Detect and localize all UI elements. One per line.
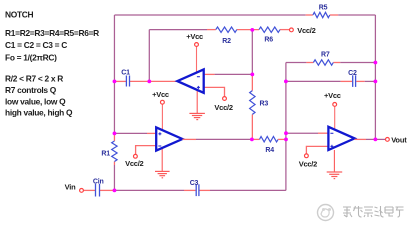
svg-text:R4: R4 [265,147,274,154]
svg-text:R1: R1 [101,150,110,157]
op-amp U1 [177,69,203,92]
junction C2 right [374,80,378,84]
wire op-amp U2 output y=139.4 [182,138,252,140]
wire C1 rail y=81 [114,80,177,82]
resistor R3 [250,91,269,115]
wire op-amp U1 non-inverting input to Vcc/2 [204,87,225,96]
terminal Vcc/2 U3 [299,154,317,168]
capacitor C1 [121,70,130,87]
svg-text:R2: R2 [222,38,231,45]
junction U3 inverting input [284,131,288,135]
wire op-amp U1 inverting input y=74.4 [204,73,253,75]
wire vertical rail x=285.9 [285,63,287,191]
junction C2 left [284,80,288,84]
svg-text:Vin: Vin [65,182,77,191]
ground U3 [327,150,343,179]
terminal Vcc/2 top right [290,26,316,35]
svg-text:NOTCH: NOTCH [5,10,34,20]
notes text block [5,10,99,118]
svg-text:+Vcc: +Vcc [186,32,203,41]
wire C2 rail y=81 [286,80,376,82]
wire op-amp U2 non-inverting input y=133.4 [114,132,156,134]
resistor R5 [313,5,330,18]
wire top rail y=15 [115,14,376,16]
svg-text:R6: R6 [264,37,273,44]
svg-text:Vcc/2: Vcc/2 [125,159,143,168]
power +Vcc U2 [152,90,169,130]
junction R4 right [284,138,288,142]
op-amp U2 [156,127,182,150]
wire bottom rail y=190.4 [84,189,286,191]
capacitor C2 [348,70,357,87]
svg-text:+Vcc: +Vcc [324,91,341,100]
watermark logo [318,205,334,221]
svg-text:low value, low Q: low value, low Q [5,96,66,106]
resistor R1 [101,141,117,162]
junction U2 non-inverting input [113,132,117,136]
wire vertical x=149.3 [148,30,150,82]
terminal Vcc/2 U2 [125,154,143,168]
svg-text:high value, high Q: high value, high Q [5,107,73,117]
svg-text:C3: C3 [190,180,199,187]
svg-text:R3: R3 [260,100,269,107]
junction C1 right [147,80,151,84]
svg-text:R7 controls Q: R7 controls Q [5,85,57,95]
terminal Vin [65,182,84,192]
wire op-amp U3 output to Vout [355,138,386,140]
wire op-amp U2 inverting input to Vcc/2 [136,146,157,155]
terminal Vout [386,136,408,145]
junction R2/R6 [250,28,254,32]
wire R2/R6 rail y=29.6 [149,29,289,31]
junction U1 inverting input [250,73,254,77]
resistor R6 [259,27,280,44]
svg-text:R5: R5 [319,5,328,12]
resistor R2 [216,27,237,45]
svg-text:+Vcc: +Vcc [152,90,169,99]
svg-text:Vcc/2: Vcc/2 [297,26,315,35]
wire right vertical rail x=375.4 [374,15,376,139]
wire op-amp U3 non-inverting input to Vcc/2 [306,146,328,154]
junction bottom Cin/R1 [113,189,117,193]
junction C1 left [113,80,117,84]
svg-text:R/2 < R7 < 2 x R: R/2 < R7 < 2 x R [5,74,63,84]
ground U1 [189,90,205,120]
op-amp U3 [328,127,354,150]
power +Vcc U3 [324,91,341,130]
wire op-amp U3 inverting input y=133.2 [286,132,328,134]
terminal Vcc/2 U1 [214,97,232,113]
power +Vcc U1 [186,32,203,73]
capacitor Cin [93,179,104,197]
watermark text [343,206,404,217]
svg-text:R7: R7 [321,51,330,58]
svg-text:Cin: Cin [93,179,104,186]
junction Vout [374,138,378,142]
svg-text:Fo = 1/(2πRC): Fo = 1/(2πRC) [5,52,57,62]
svg-text:R1=R2=R3=R4=R5=R6=R: R1=R2=R3=R4=R5=R6=R [5,28,99,38]
resistor R7 [313,51,333,65]
junction R7 right [374,61,378,65]
svg-text:Vcc/2: Vcc/2 [214,103,232,112]
wire R7 rail y=62.5 [286,62,376,64]
svg-text:C2: C2 [348,70,357,77]
capacitor C3 [190,180,199,196]
resistor R4 [252,137,286,155]
wire left vertical rail x=114.45 [113,15,115,190]
junction R3/R4/U2 output [250,138,254,142]
svg-text:Vcc/2: Vcc/2 [299,159,317,168]
ground U2 [155,148,170,178]
svg-text:C1: C1 [121,70,130,77]
wire vertical x=252.35 with R3 [251,30,253,140]
svg-text:Vout: Vout [391,136,407,145]
svg-text:C1 = C2 = C3 = C: C1 = C2 = C3 = C [5,40,67,50]
